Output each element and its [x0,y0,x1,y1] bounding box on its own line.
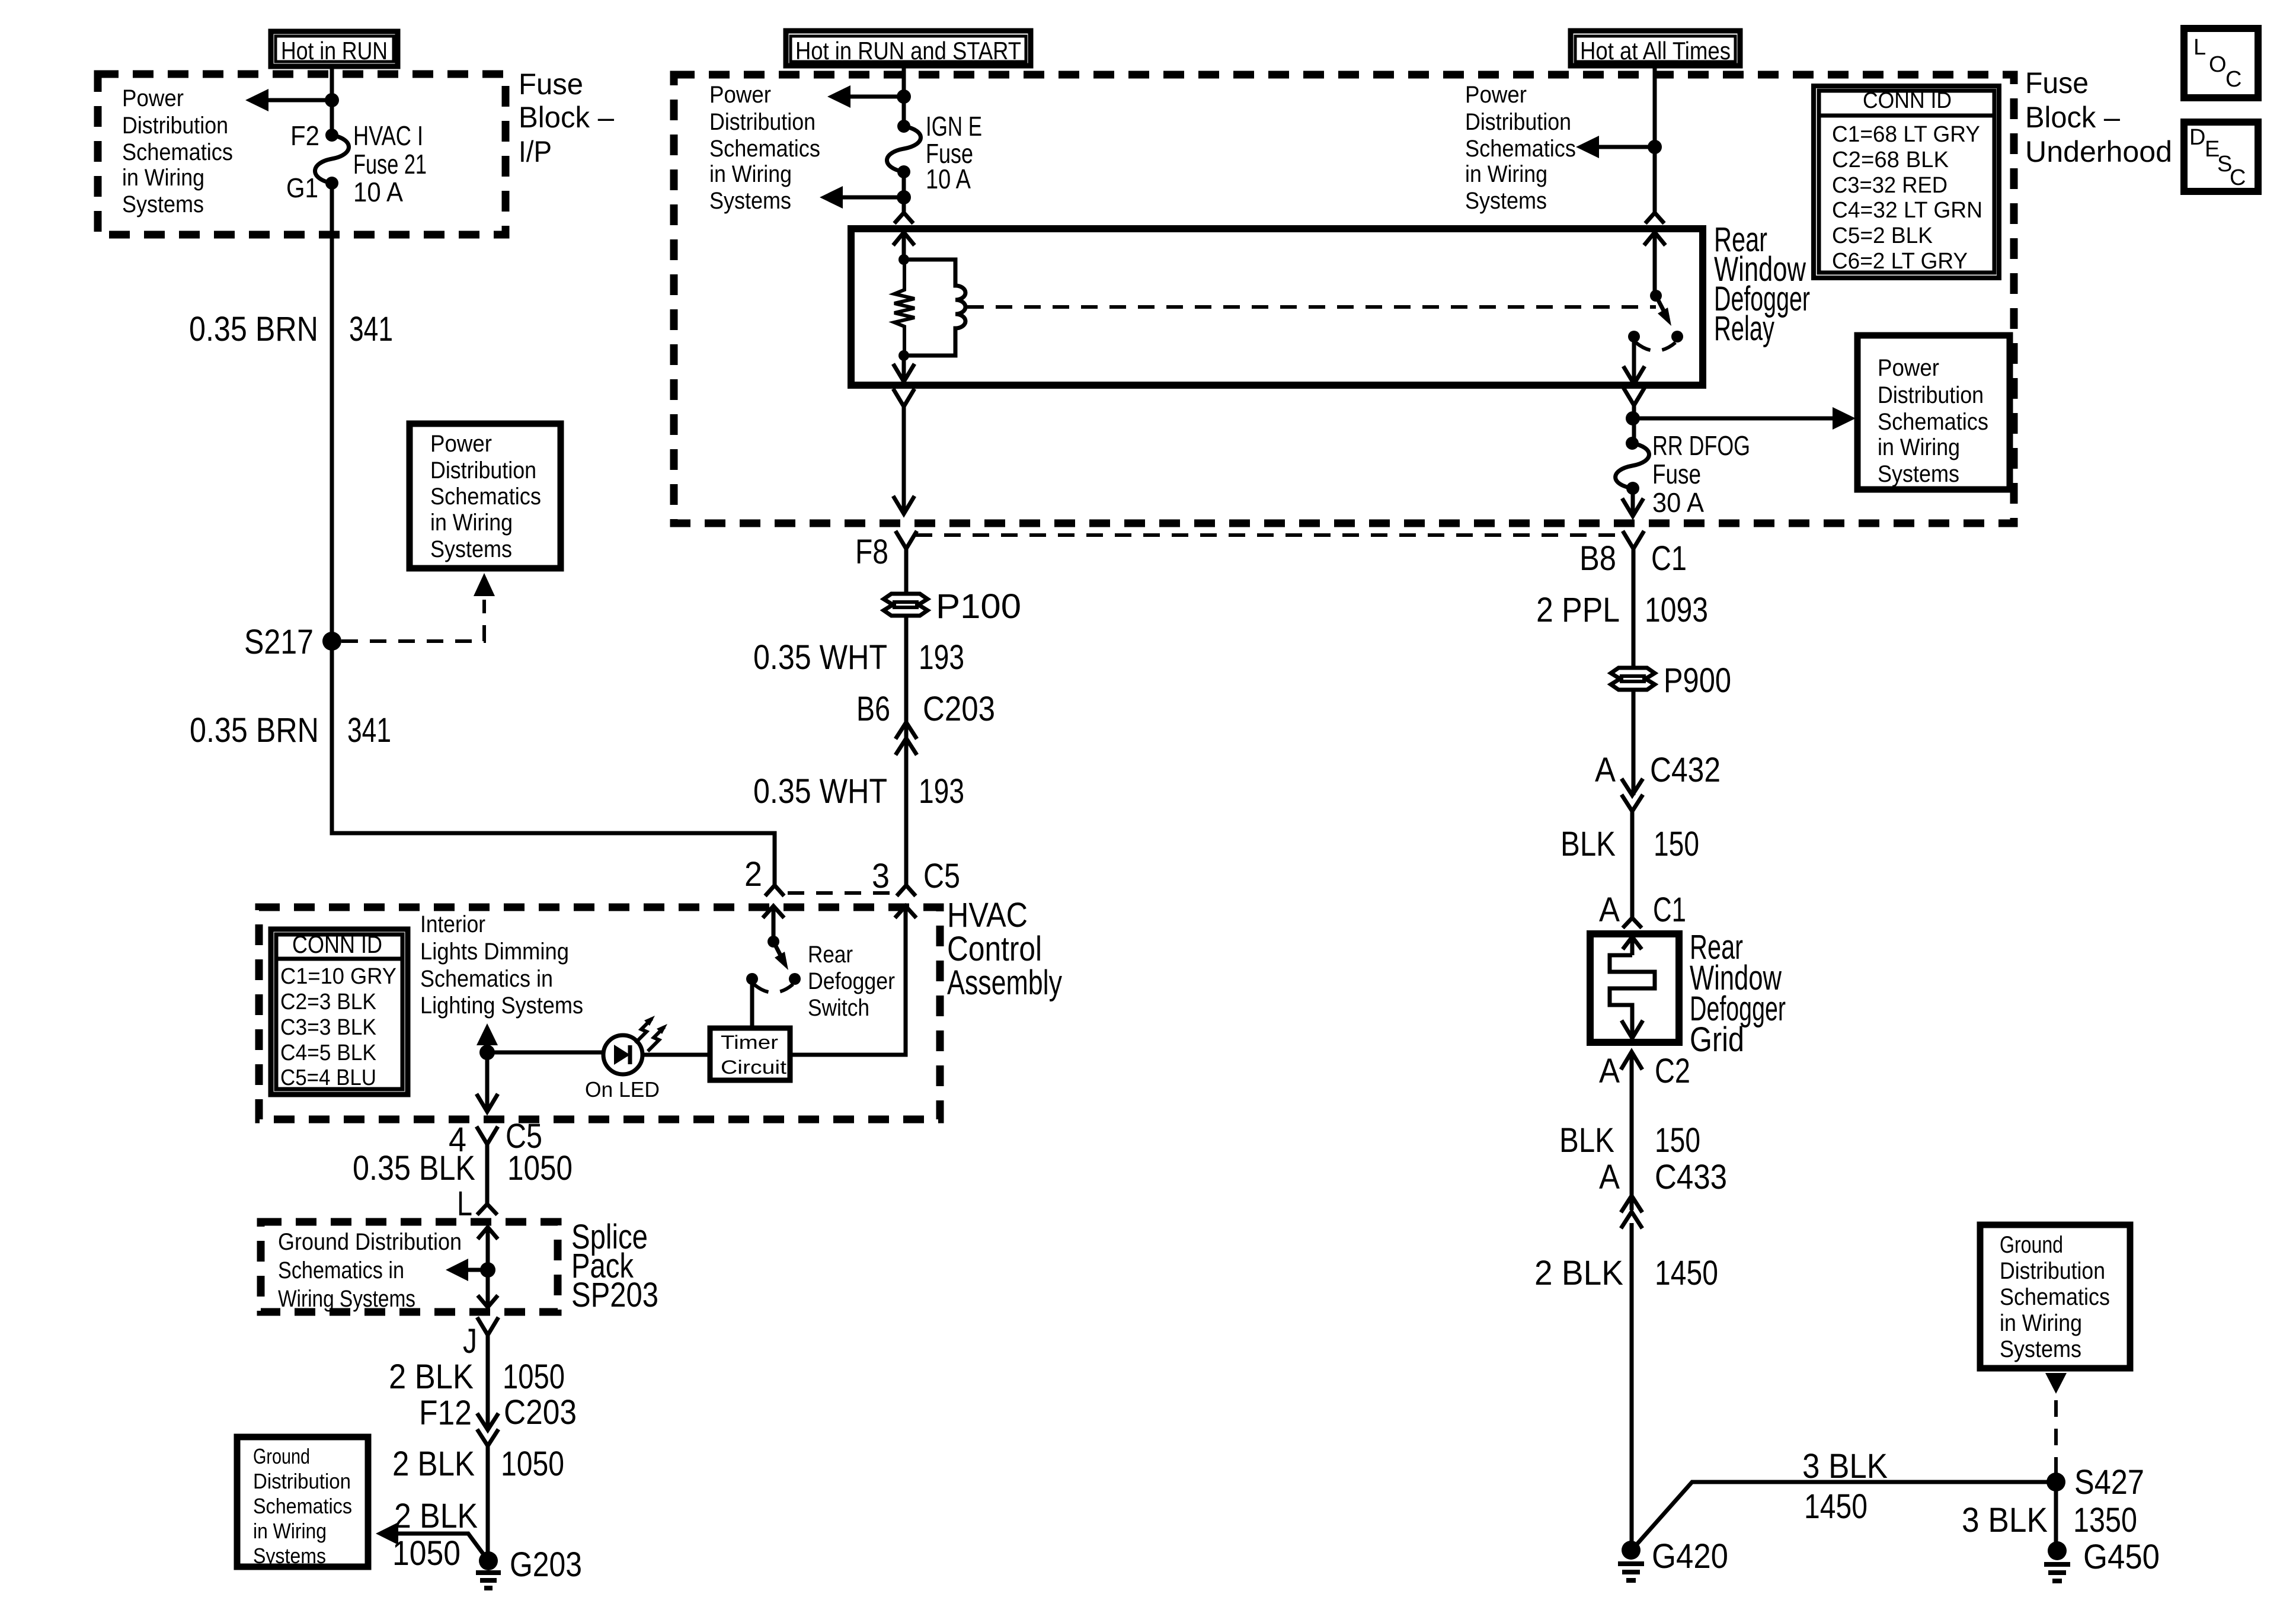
fuse block I/P dashed box [98,74,506,235]
svg-text:On LED: On LED [585,1077,660,1102]
wire splice internal arrow down [478,1270,498,1307]
wire 341 BRN down from fuse block [332,183,775,885]
svg-text:C: C [2230,165,2246,190]
svg-text:1350: 1350 [2073,1501,2137,1539]
svg-text:BLK: BLK [1560,825,1616,863]
svg-text:F8: F8 [855,533,888,571]
svg-text:C2=3 BLK: C2=3 BLK [280,990,376,1014]
node junction upper [897,89,911,104]
wire pin 4 to splice pack [485,1144,490,1204]
svg-text:Circuit: Circuit [721,1057,786,1078]
grid box Rear Window Defogger Grid [1590,934,1679,1042]
node junction on RUN feed [325,93,339,107]
svg-text:Systems: Systems [430,536,512,562]
power distribution box right [1857,335,2010,489]
timer circuit box [710,1028,790,1080]
svg-text:Power: Power [1878,355,1939,381]
node splice junction [480,1262,495,1278]
connector female below splice [477,1317,498,1335]
svg-text:C3=32 RED: C3=32 RED [1832,173,1948,198]
note Ground Distribution Schematics (splice) [278,1229,462,1312]
connector C433 double chevron up [1621,1196,1642,1228]
wire C432 to grid C1 [1630,809,1635,918]
switch rear defogger arm [773,942,788,970]
svg-text:Power: Power [430,431,492,457]
connector chevron below relay left [893,389,914,406]
wire below IGN E fuse [902,172,906,212]
ground G203 [476,1551,501,1588]
svg-text:in Wiring: in Wiring [709,161,792,187]
svg-text:Distribution: Distribution [2000,1258,2105,1284]
svg-text:in Wiring: in Wiring [430,510,513,536]
wire label 2 PPL 1093 [1536,591,1708,629]
svg-text:B6: B6 [856,690,890,728]
svg-text:Schematics: Schematics [430,484,541,510]
wire splice to C203 [486,1335,490,1430]
wire label 0.35 BRN 341 upper [189,310,393,348]
wire grid C2 to C433 [1630,1052,1634,1210]
LED emission arrows [635,1016,667,1051]
svg-text:Defogger: Defogger [808,968,895,994]
svg-text:Schematics in: Schematics in [278,1257,404,1283]
svg-text:in Wiring: in Wiring [122,165,204,191]
svg-text:341: 341 [349,310,393,348]
svg-text:HVAC I: HVAC I [353,120,423,151]
svg-text:Rear: Rear [808,942,853,968]
wire coil feed arrow up [893,232,914,260]
inline connector P900 [1611,668,1655,690]
svg-text:C1: C1 [1651,539,1687,578]
svg-text:CONN ID: CONN ID [1863,88,1952,113]
wire label 0.35 WHT 193 lower [753,772,964,811]
node junction lower [897,190,911,204]
svg-text:Systems: Systems [709,188,791,214]
svg-text:C4=5 BLK: C4=5 BLK [280,1041,376,1065]
svg-text:Hot at All Times: Hot at All Times [1580,37,1731,65]
svg-text:Fuse 21: Fuse 21 [353,149,427,180]
wire splice internal arrow up [478,1227,498,1270]
ground G420 [1618,1541,1644,1580]
svg-text:HVAC: HVAC [947,896,1028,934]
wire relay common feed arrow up [1644,232,1665,296]
node coil bottom [898,350,909,361]
connector female B8 [1623,531,1644,549]
svg-text:A: A [1599,1158,1620,1196]
svg-text:C432: C432 [1650,751,1721,789]
conn id table hvac [271,929,408,1094]
wire grid feed arrow up [1623,937,1642,955]
wire dashed switch arc [754,984,793,993]
note Power Distribution Schematics (IGN E) [709,82,820,214]
wire arrow branch to ground distribution [376,1522,488,1561]
label box DESC [2184,122,2258,191]
svg-text:C6=2 LT GRY: C6=2 LT GRY [1832,249,1968,274]
wire C433 to G420 [1630,1223,1634,1550]
svg-text:Assembly: Assembly [947,964,1062,1002]
label box LOC [2184,28,2258,98]
svg-text:Wiring Systems: Wiring Systems [278,1286,415,1312]
label box Hot at All Times [1571,31,1740,66]
label Rear Defogger Switch [808,942,895,1021]
svg-text:C2=68 BLK: C2=68 BLK [1832,148,1949,172]
node switch pivot [1650,290,1662,302]
label HVAC Control Assembly [947,896,1062,1002]
svg-text:Lighting Systems: Lighting Systems [420,993,583,1019]
wire label 2 BLK 1050 upper [389,1358,565,1396]
svg-text:Distribution: Distribution [1878,382,1984,408]
svg-text:0.35 BLK: 0.35 BLK [353,1149,475,1188]
svg-text:Distribution: Distribution [709,109,816,135]
svg-text:A: A [1595,751,1616,789]
svg-text:C2: C2 [1655,1052,1690,1090]
wire label 0.35 WHT 193 upper [753,638,964,677]
svg-text:G203: G203 [510,1545,582,1584]
svg-text:1050: 1050 [507,1149,573,1188]
connector female pin 2 [765,885,784,896]
svg-text:S217: S217 [244,623,314,661]
svg-text:Schematics: Schematics [2000,1284,2110,1310]
svg-text:3 BLK: 3 BLK [1962,1501,2048,1539]
svg-text:3: 3 [872,857,890,895]
svg-text:I/P: I/P [519,135,552,168]
svg-text:3 BLK: 3 BLK [1802,1447,1888,1486]
wire label 3 BLK 1350 [1962,1501,2137,1539]
wire P100 to C203 [904,616,909,744]
wire arrow to power distribution schematics right [1633,407,1856,430]
svg-text:Ground Distribution: Ground Distribution [278,1229,462,1255]
svg-text:2 BLK: 2 BLK [394,1497,478,1535]
svg-text:Schematics: Schematics [1878,409,1988,435]
wire thin dashed connector line F8 to B8 [916,533,1624,537]
node coil top [898,254,909,265]
ground distribution box right [1980,1225,2130,1368]
wire RR DFOG fuse to B8 [1622,488,1643,516]
node contact left [1628,331,1640,343]
svg-text:Grid: Grid [1690,1020,1744,1059]
svg-text:J: J [463,1322,477,1361]
wire grid return arrow down [1622,1020,1643,1038]
svg-text:C4=32 LT GRN: C4=32 LT GRN [1832,198,1982,223]
node switch contact right [789,973,801,985]
inline connector P100 [884,594,928,616]
arrow to ground distribution box [2045,1373,2067,1394]
svg-text:Systems: Systems [1465,188,1547,214]
resistor relay coil suppressor [894,260,914,356]
node S217 [322,632,341,651]
svg-text:Lights Dimming: Lights Dimming [420,939,569,965]
svg-text:IGN E: IGN E [926,111,982,142]
label Rear Window Defogger Grid [1690,928,1786,1059]
svg-text:30 A: 30 A [1652,487,1704,518]
wire label BLK 150 lower [1559,1121,1700,1160]
svg-text:Schematics: Schematics [709,136,820,162]
fuse IGN E 10 A [887,120,921,178]
wire label 3 BLK 1450 horizontal [1802,1447,1888,1526]
svg-text:2 BLK: 2 BLK [389,1358,474,1396]
svg-text:Switch: Switch [808,995,869,1021]
svg-text:Block –: Block – [519,101,614,134]
inductor relay coil [904,260,965,356]
svg-text:G420: G420 [1652,1537,1728,1576]
wire arrow left to ground distribution [446,1259,488,1281]
svg-text:Schematics in: Schematics in [420,966,553,992]
ground distribution box bottom left [237,1437,368,1568]
wire relay output to F8 [893,406,914,514]
wire C203 to G203 [486,1443,490,1561]
svg-text:150: 150 [1655,1121,1700,1160]
diode On LED [603,1035,642,1074]
power distribution box left [410,424,561,568]
svg-text:Schematics: Schematics [122,139,233,165]
svg-text:C1: C1 [1653,891,1686,929]
wire LED branch left [487,1051,603,1055]
wire arrow to power distribution upper [827,85,904,108]
wire arrow to power distribution battery [1576,136,1655,158]
value label RR DFOG Fuse 30 A [1652,430,1750,518]
pin A C433 [1599,1158,1727,1196]
svg-text:Fuse: Fuse [1652,459,1701,489]
splice pack dashed box [261,1222,558,1312]
svg-text:L: L [457,1185,472,1223]
svg-text:Distribution: Distribution [253,1469,351,1493]
svg-text:0.35 BRN: 0.35 BRN [189,310,318,348]
svg-text:2 BLK: 2 BLK [1534,1254,1623,1292]
svg-text:C3=3 BLK: C3=3 BLK [280,1015,376,1040]
node junction battery feed [1648,140,1662,154]
svg-text:1050: 1050 [392,1534,461,1573]
svg-text:SP203: SP203 [571,1276,658,1314]
svg-text:Timer: Timer [721,1032,778,1053]
wire Hot in RUN and START feed [902,66,906,128]
wire dashed S217 reference with arrow [341,573,495,641]
svg-text:193: 193 [919,638,964,677]
relay box Rear Window Defogger Relay [851,229,1703,385]
svg-text:Relay: Relay [1714,309,1774,348]
svg-text:C1=68 LT GRY: C1=68 LT GRY [1832,122,1980,147]
connector female grid bottom [1621,1052,1642,1070]
wire thin dashed connector line pin2 pin3 [788,891,892,895]
svg-text:0.35 WHT: 0.35 WHT [753,638,887,677]
node junction RR DFOG [1626,411,1640,425]
svg-text:1050: 1050 [501,1445,564,1483]
wire pin 2 arrow into switch [763,906,784,942]
label box Hot in RUN [271,31,398,66]
svg-text:Underhood: Underhood [2025,135,2172,168]
pin A C2 [1599,1052,1690,1090]
svg-text:Fuse: Fuse [2025,66,2089,100]
value label IGN E Fuse 10 A [926,111,982,194]
svg-text:Fuse: Fuse [519,68,583,101]
svg-text:A: A [1599,1052,1620,1090]
wire coil return arrow down [893,356,914,382]
svg-text:1450: 1450 [1655,1254,1718,1292]
wire dashed relay actuation link [967,305,1656,309]
wire label 0.35 BLK 1050 [353,1149,573,1188]
svg-text:Ground: Ground [2000,1232,2063,1258]
svg-text:2 PPL: 2 PPL [1536,591,1620,629]
svg-text:Control: Control [947,930,1042,968]
node switch contact left [746,973,758,985]
value label HVAC I Fuse 21 10 A [353,120,427,207]
wire Hot in RUN feed [330,66,334,137]
node LED branch [479,1045,495,1060]
svg-text:O: O [2209,52,2227,77]
wire dashed contact arc [1636,343,1675,351]
svg-text:G1: G1 [286,172,318,203]
wire B8 to P900 [1632,549,1636,668]
svg-text:Hot in RUN: Hot in RUN [281,37,388,65]
label Splice Pack SP203 [571,1218,658,1314]
node contact right [1671,331,1683,343]
label Fuse Block I/P [519,68,614,168]
wire label BLK 150 upper [1560,825,1699,863]
wire relay output arrow down [1623,337,1645,384]
svg-text:Hot in RUN and START: Hot in RUN and START [795,37,1021,65]
wire arrow to power distribution [245,89,332,111]
wire dashed S427 reference [2054,1394,2058,1474]
svg-text:Systems: Systems [2000,1336,2081,1362]
svg-text:Schematics: Schematics [253,1494,352,1518]
svg-text:A: A [1599,891,1620,929]
label Rear Window Defogger Relay [1714,220,1810,348]
svg-text:D: D [2189,125,2205,150]
hvac control assembly dashed box [259,907,940,1119]
svg-text:Power: Power [709,82,771,108]
wire switch to timer circuit [750,979,754,1028]
note Power Distribution Schematics (I/P fuse block) [122,85,233,217]
svg-text:C1=10 GRY: C1=10 GRY [280,964,396,989]
wire arrow to power distribution lower [820,186,904,209]
wire S427 to G450 [2054,1482,2058,1551]
node S427 [2046,1473,2065,1491]
svg-text:in Wiring: in Wiring [2000,1310,2082,1336]
connector chevron below relay right [1623,388,1645,405]
svg-text:S427: S427 [2074,1463,2144,1502]
svg-text:C203: C203 [923,690,995,728]
svg-text:Block –: Block – [2025,101,2120,134]
resistor defogger grid element [1610,955,1655,1020]
pin A C1 grid [1599,891,1686,929]
svg-text:Interior: Interior [420,911,485,937]
svg-text:C5=4 BLU: C5=4 BLU [280,1065,376,1090]
wire relay output to RR DFOG fuse [1632,405,1636,445]
svg-text:Distribution: Distribution [430,457,536,484]
svg-text:Distribution: Distribution [1465,109,1571,135]
note Power Distribution Schematics (battery) [1465,82,1576,214]
svg-text:RR DFOG: RR DFOG [1652,430,1750,461]
svg-text:Distribution: Distribution [122,113,228,139]
wire label 0.35 BRN 341 lower [190,711,391,750]
wire arrow up to interior lights note [477,1023,498,1052]
connector C203 double chevron down lower [477,1413,498,1446]
svg-text:Power: Power [1465,82,1527,108]
connector female grid top [1623,918,1642,928]
svg-text:CONN ID: CONN ID [292,930,382,958]
wire pin 3 arrow to timer [790,906,916,1055]
svg-text:C5: C5 [923,857,960,895]
svg-text:0.35 BRN: 0.35 BRN [190,711,319,750]
svg-text:Ground: Ground [253,1444,310,1468]
wire C203 to HVAC pin 3 [904,741,909,885]
connector female pin 3 [897,885,916,896]
label Fuse Block Underhood [2025,66,2172,168]
ground G450 [2044,1541,2070,1581]
svg-text:Schematics: Schematics [1465,136,1576,162]
svg-text:F2: F2 [290,120,319,151]
conn id table underhood [1814,86,1999,278]
connector C203 double chevron [896,722,917,755]
svg-text:Systems: Systems [1878,461,1959,487]
svg-text:1450: 1450 [1804,1487,1868,1526]
wire down to pin 4 [477,1052,498,1112]
wire branch to S427 [1632,1482,2056,1550]
wire F8 to P100 [904,549,909,594]
svg-text:F12: F12 [419,1394,472,1432]
svg-text:Systems: Systems [122,191,204,217]
svg-text:P100: P100 [936,587,1021,626]
connector C432 double chevron down [1622,779,1643,811]
fuse block underhood dashed box [674,75,2014,523]
svg-text:1093: 1093 [1645,591,1708,629]
svg-text:P900: P900 [1664,661,1731,700]
svg-text:in Wiring: in Wiring [1465,161,1547,187]
svg-text:193: 193 [919,772,964,811]
svg-text:10 A: 10 A [926,164,971,194]
wire label 2 BLK 1450 [1534,1254,1718,1292]
label box Hot in RUN and START [786,31,1031,66]
svg-text:in Wiring: in Wiring [1878,434,1960,460]
wire Hot at All Times feed [1653,66,1657,213]
svg-text:341: 341 [347,711,391,750]
connector chevron into relay coil [894,213,913,223]
svg-text:1050: 1050 [503,1358,565,1396]
wire P900 to C432 [1632,690,1636,795]
svg-text:2 BLK: 2 BLK [392,1445,475,1483]
wire LED to timer circuit [642,1053,710,1057]
svg-text:B8: B8 [1579,539,1616,578]
svg-text:L: L [2193,35,2206,60]
wire label 2 BLK 1050 lower [392,1445,564,1483]
node switch pivot hvac [768,936,779,948]
svg-text:2: 2 [744,855,762,894]
svg-text:150: 150 [1654,825,1699,863]
fuse RR DFOG 30 A [1616,437,1649,495]
note Interior Lights Dimming Schematics [420,911,583,1019]
svg-text:C203: C203 [504,1393,577,1432]
svg-text:BLK: BLK [1559,1121,1614,1160]
svg-text:C5=2 BLK: C5=2 BLK [1832,223,1933,248]
svg-text:in Wiring: in Wiring [253,1519,327,1543]
svg-text:C433: C433 [1655,1158,1727,1196]
connector female F8 [896,531,917,549]
connector female pin 4 [477,1126,498,1144]
fuse HVAC I Fuse 21 10 A [315,129,349,190]
switch relay contact arm [1656,296,1671,326]
svg-text:10 A: 10 A [353,177,403,207]
svg-text:Systems: Systems [253,1544,326,1568]
svg-text:C: C [2225,67,2241,92]
pin A C432 [1595,751,1721,789]
svg-text:Power: Power [122,85,184,111]
svg-text:0.35 WHT: 0.35 WHT [753,772,887,811]
svg-text:G450: G450 [2083,1538,2160,1576]
